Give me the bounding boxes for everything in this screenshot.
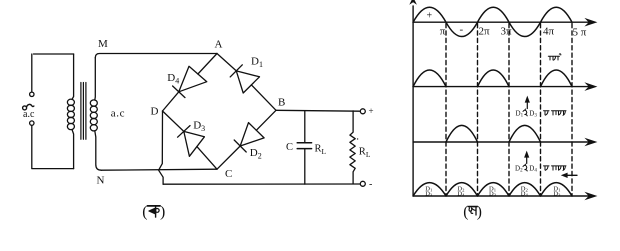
output terminal + (360, 109, 365, 114)
svg-text:D4: D4 (529, 164, 537, 173)
svg-text:a.c: a.c (23, 109, 35, 120)
svg-text:-: - (460, 24, 464, 36)
dashed grid line at 5pi (571, 24, 573, 197)
capacitor C (297, 111, 311, 184)
row4 hump labels D2 D4 (hump2) (457, 186, 465, 198)
wire M to A (95, 54, 217, 58)
svg-text:RL: RL (315, 144, 327, 157)
output terminal - (360, 181, 365, 186)
a.c source terminal top (30, 92, 34, 96)
svg-text:D3: D3 (553, 191, 561, 198)
svg-text:D3: D3 (529, 109, 537, 118)
svg-text:-: - (369, 179, 372, 190)
dashed grid line at 3pi (508, 24, 510, 197)
wire D-A edge with diode gap (163, 54, 218, 112)
wire N to C (101, 169, 217, 170)
wire A-B edge with diode gap (217, 54, 276, 111)
transformer primary winding (67, 99, 74, 129)
svg-text:D4: D4 (167, 72, 179, 86)
row1 time axis (413, 21, 589, 23)
a.c source terminal bottom (30, 121, 34, 125)
svg-text:D3: D3 (193, 120, 205, 134)
top rail wire B to + terminal (276, 109, 360, 112)
transformer secondary winding (90, 100, 97, 131)
svg-text:RL: RL (359, 147, 371, 160)
transformer primary lead bottom (72, 130, 74, 169)
row2 output humps D1,D3 (413, 70, 572, 87)
a.c source sine symbol (23, 104, 34, 110)
resistor RL (350, 111, 355, 184)
svg-text:3π: 3π (501, 26, 513, 38)
stray dot (357, 138, 358, 139)
y axis arrowhead (409, 0, 417, 5)
svg-text:D: D (151, 106, 159, 118)
row3 annotation arrow up (524, 151, 529, 164)
diode D4 (173, 66, 207, 97)
glyph ka (147, 206, 160, 217)
svg-text:D2: D2 (250, 147, 262, 161)
row4 time axis (413, 195, 589, 197)
bengali o (row2) (523, 109, 527, 116)
svg-text:B: B (278, 97, 285, 109)
bengali input label (row1) (548, 54, 561, 60)
row1 axis arrowhead (584, 18, 597, 27)
dashed grid line at 2pi (477, 24, 479, 197)
svg-text:A: A (215, 39, 223, 51)
bengali er output (row2) (544, 111, 567, 116)
row3 axis arrowhead (584, 138, 597, 147)
svg-text:D4: D4 (521, 191, 529, 198)
row2 time axis (413, 86, 589, 88)
transformer secondary lead bottom (95, 131, 102, 170)
row4 hump labels D1 D3 (hump3) (489, 186, 497, 198)
row4 axis arrowhead (584, 192, 597, 201)
row4 hump labels D1 D3 (hump5) (553, 186, 561, 198)
row4 full-wave humps (413, 183, 572, 196)
transformer secondary lead top (94, 58, 97, 100)
row2 annotation D1 o D3 (516, 109, 538, 118)
svg-text:+: + (427, 11, 433, 22)
a.c source loop wire (32, 54, 74, 169)
svg-text:5 π: 5 π (573, 27, 587, 39)
dashed grid line at 4pi (540, 24, 542, 197)
svg-text:M: M (98, 38, 108, 50)
svg-text:C: C (286, 142, 293, 153)
diode D3 (178, 126, 205, 157)
row4 hump labels D1 D3 (hump1) (425, 186, 433, 198)
bengali o (row3) (523, 164, 527, 171)
row3 annotation D2 o D4 (515, 164, 537, 173)
wire D-C edge with diode gap (163, 111, 218, 169)
svg-text:(: ( (463, 204, 468, 221)
row3 time axis (413, 141, 589, 143)
svg-text:4π: 4π (543, 26, 555, 38)
svg-text:D4: D4 (457, 191, 465, 198)
row4 hump labels D2 D4 (hump4) (521, 186, 529, 198)
wire C-B edge with diode gap (217, 110, 276, 169)
glyph kha (468, 207, 477, 215)
diode D2 (234, 123, 264, 152)
row4 left arrow (561, 173, 577, 178)
row3 output humps D2,D4 (446, 125, 541, 142)
row2 axis arrowhead (584, 82, 597, 91)
caption (kha) (463, 204, 482, 221)
svg-text:+: + (369, 106, 374, 116)
svg-text:D2: D2 (515, 164, 523, 173)
waveform panel: y axis (412, 6, 414, 196)
row2 annotation arrow up (525, 96, 530, 109)
transformer primary lead top (72, 54, 74, 99)
svg-text:D1: D1 (516, 109, 524, 118)
svg-text:D1: D1 (251, 55, 263, 69)
dashed grid line at pi (445, 24, 447, 197)
transformer core (81, 83, 86, 140)
diode D1 (230, 65, 259, 93)
svg-text:π: π (440, 26, 446, 38)
svg-text:N: N (97, 175, 105, 187)
caption (ka) (142, 204, 165, 221)
svg-text:D3: D3 (425, 191, 433, 198)
svg-text:D3: D3 (489, 191, 497, 198)
bottom rail wire (163, 183, 360, 185)
wire D down to bottom rail (crossing N wire) (159, 111, 164, 184)
svg-text:C: C (225, 168, 232, 180)
input sine wave (413, 7, 572, 36)
bengali er output (row3) (544, 166, 567, 171)
svg-text:2π: 2π (479, 26, 491, 38)
svg-text:a.c: a.c (111, 107, 125, 119)
